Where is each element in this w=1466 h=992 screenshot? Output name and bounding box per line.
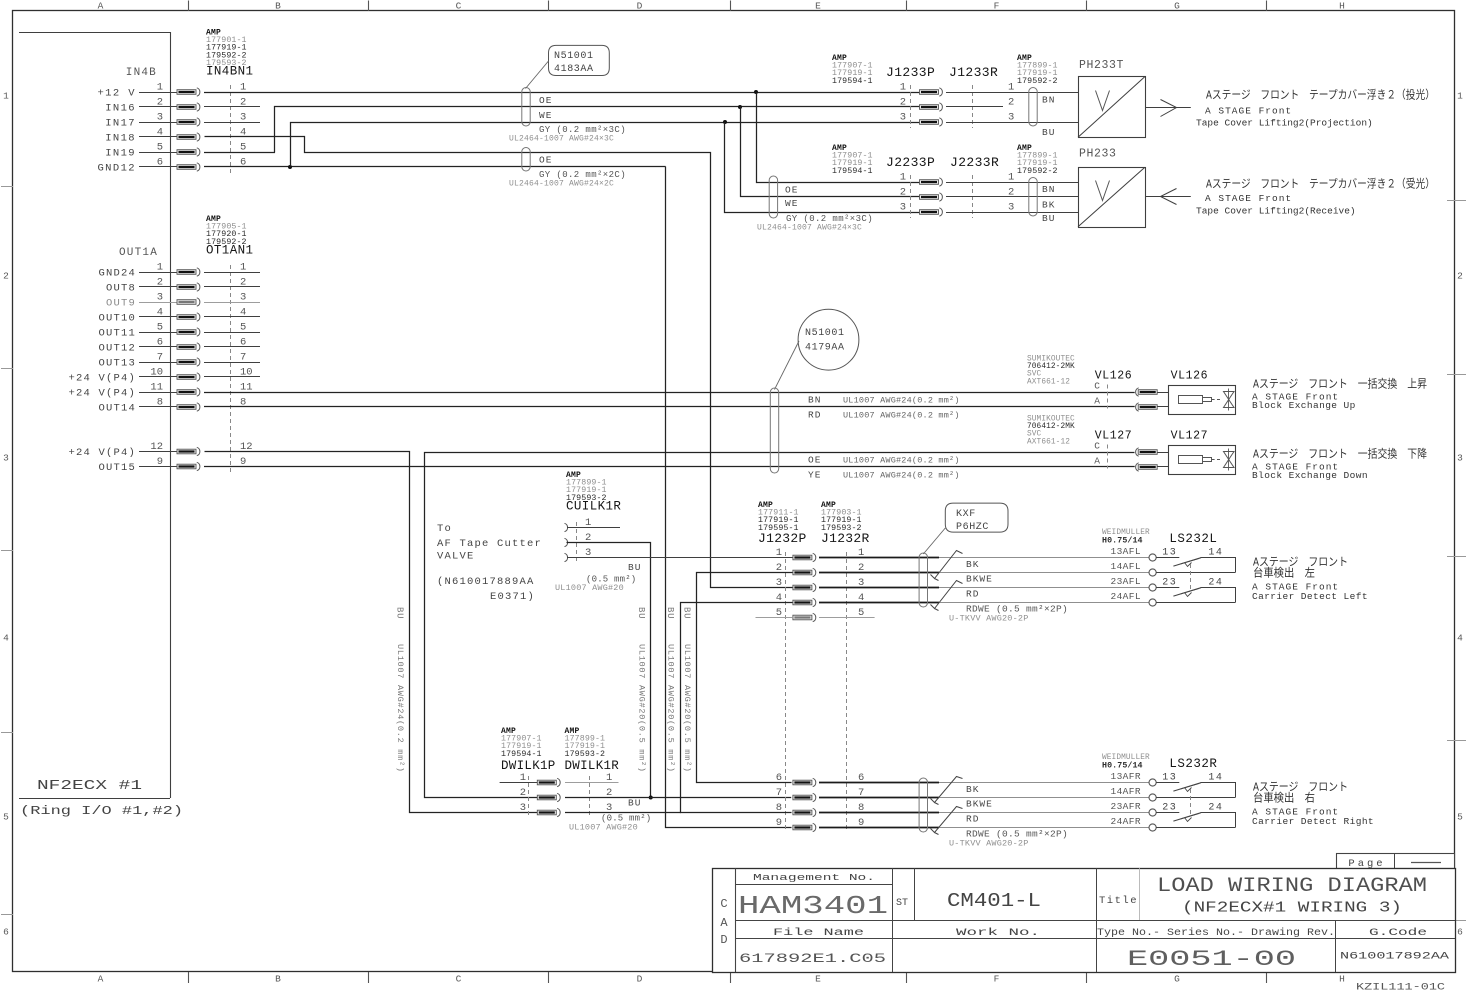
svg-text:N610017892AA: N610017892AA <box>1340 951 1450 963</box>
wire GND12 routed to row3 <box>204 166 666 168</box>
svg-text:LS232L: LS232L <box>1169 532 1217 546</box>
svg-text:6: 6 <box>3 927 9 938</box>
svg-text:台車検出 左: 台車検出 左 <box>1253 566 1315 581</box>
svg-text:4: 4 <box>157 307 163 319</box>
svg-text:B: B <box>275 1 281 12</box>
node J at 740,107 <box>738 105 742 109</box>
svg-text:1: 1 <box>1008 172 1014 184</box>
svg-text:3: 3 <box>157 112 163 124</box>
svg-text:5: 5 <box>240 322 246 334</box>
svg-text:9: 9 <box>776 817 782 829</box>
svg-text:J1232P: J1232P <box>758 531 807 546</box>
svg-text:YE: YE <box>808 470 821 481</box>
svg-text:OUT12: OUT12 <box>98 343 136 355</box>
svg-text:UL1007 AWG#20(0.5 mm²): UL1007 AWG#20(0.5 mm²) <box>636 644 646 773</box>
svg-text:IN4B: IN4B <box>126 67 157 79</box>
svg-text:13AFL: 13AFL <box>1110 546 1141 557</box>
svg-text:+12 V: +12 V <box>97 88 136 100</box>
svg-text:J1233R: J1233R <box>949 65 998 80</box>
svg-text:IN19: IN19 <box>105 148 136 160</box>
svg-text:6: 6 <box>157 337 163 349</box>
svg-text:H0.75/14: H0.75/14 <box>1102 761 1143 771</box>
svg-text:3: 3 <box>3 453 9 464</box>
svg-text:3: 3 <box>1008 112 1014 124</box>
svg-text:UL2464-1007 AWG#24×3C: UL2464-1007 AWG#24×3C <box>757 224 862 233</box>
svg-text:23AFL: 23AFL <box>1110 576 1141 587</box>
cable marker J1233 <box>1029 88 1037 126</box>
J1232P pin5 stubs <box>756 617 793 619</box>
svg-text:(Ring I/O #1,#2): (Ring I/O #1,#2) <box>20 804 183 818</box>
svg-text:+24 V(P4): +24 V(P4) <box>68 373 136 385</box>
svg-text:GY (0.2 mm²×3C): GY (0.2 mm²×3C) <box>539 125 626 135</box>
svg-text:4: 4 <box>157 127 163 139</box>
svg-text:U-TKVV AWG20-2P: U-TKVV AWG20-2P <box>949 839 1029 849</box>
arrow receive <box>1146 196 1191 198</box>
svg-text:Aステージ フロント テープカバー浮き２（受光）: Aステージ フロント テープカバー浮き２（受光） <box>1206 177 1435 192</box>
svg-text:23: 23 <box>1162 577 1177 588</box>
svg-text:OUT1A: OUT1A <box>119 247 158 259</box>
cable marker GY 3C (J2233) <box>769 176 777 218</box>
svg-text:3: 3 <box>1457 453 1463 464</box>
wire OUT15 to VL127 A <box>204 466 1135 468</box>
svg-text:OE: OE <box>808 455 821 466</box>
svg-text:2: 2 <box>900 187 906 199</box>
svg-text:OT1AN1: OT1AN1 <box>206 243 253 257</box>
svg-text:RD: RD <box>966 814 979 825</box>
svg-text:7: 7 <box>776 787 782 799</box>
svg-text:D: D <box>720 933 727 947</box>
svg-text:G: G <box>1174 974 1180 985</box>
node J at 725,122 <box>723 120 727 124</box>
svg-text:2: 2 <box>900 97 906 109</box>
svg-text:A: A <box>720 916 728 930</box>
svg-text:H: H <box>1339 974 1345 985</box>
leader <box>923 528 945 554</box>
svg-text:BN: BN <box>808 395 821 406</box>
svg-text:VL127: VL127 <box>1095 430 1133 443</box>
node BU at 650.7,797.5 <box>649 796 653 800</box>
CUILK pin1 stub <box>567 527 620 529</box>
svg-text:24: 24 <box>1208 802 1223 813</box>
svg-text:File Name: File Name <box>773 927 864 939</box>
svg-text:AXT661-12: AXT661-12 <box>1027 438 1070 446</box>
svg-text:BU: BU <box>394 607 404 619</box>
svg-text:3: 3 <box>520 802 526 814</box>
leader <box>775 341 800 390</box>
svg-text:J2233P: J2233P <box>886 155 935 170</box>
svg-text:PH233: PH233 <box>1079 148 1117 161</box>
svg-text:OUT10: OUT10 <box>98 313 136 325</box>
svg-text:UL1007 AWG#24(0.2 mm²): UL1007 AWG#24(0.2 mm²) <box>843 456 960 466</box>
svg-text:OE: OE <box>539 155 552 166</box>
svg-text:D: D <box>637 1 643 12</box>
svg-text:4183AA: 4183AA <box>554 64 594 75</box>
svg-text:E: E <box>815 1 821 12</box>
DWILK pin3 to junction 681 <box>565 812 681 814</box>
svg-text:WE: WE <box>785 198 798 209</box>
svg-text:(N610017889AA: (N610017889AA <box>437 576 535 588</box>
svg-text:617892E1.C05: 617892E1.C05 <box>739 951 886 966</box>
svg-text:10: 10 <box>150 367 163 379</box>
svg-text:23AFR: 23AFR <box>1110 801 1141 812</box>
svg-text:Aステージ フロント 一括交換 下降: Aステージ フロント 一括交換 下降 <box>1253 447 1427 462</box>
svg-text:13: 13 <box>1162 772 1177 783</box>
wire +24V pin12 to DWILK1P pin3 <box>205 452 538 813</box>
svg-text:5: 5 <box>240 142 246 154</box>
svg-text:BU: BU <box>636 607 646 619</box>
svg-text:2: 2 <box>157 97 163 109</box>
svg-text:179594-1: 179594-1 <box>832 77 873 86</box>
svg-text:A STAGE Front: A STAGE Front <box>1205 106 1292 117</box>
J1233R pin1 wire to PH233T <box>946 92 1078 94</box>
svg-text:WE: WE <box>539 110 552 121</box>
svg-text:3: 3 <box>240 292 246 304</box>
svg-text:11: 11 <box>150 382 163 394</box>
svg-text:OE: OE <box>785 185 798 196</box>
svg-text:OE: OE <box>539 95 552 106</box>
svg-text:GND12: GND12 <box>97 163 136 175</box>
svg-text:3: 3 <box>900 112 906 124</box>
svg-text:24AFL: 24AFL <box>1110 591 1141 602</box>
svg-text:B: B <box>275 974 281 985</box>
svg-text:BU: BU <box>682 607 692 619</box>
svg-text:Aステージ フロント テープカバー浮き２（投光）: Aステージ フロント テープカバー浮き２（投光） <box>1206 88 1435 103</box>
cable marker VL <box>770 388 778 473</box>
svg-text:A STAGE Front: A STAGE Front <box>1205 193 1292 204</box>
svg-text:To: To <box>437 523 452 535</box>
svg-text:AF Tape Cutter: AF Tape Cutter <box>437 538 542 550</box>
wire IN16 stub <box>204 106 260 108</box>
svg-text:1: 1 <box>900 82 906 94</box>
svg-text:BKWE: BKWE <box>966 799 993 810</box>
svg-text:IN16: IN16 <box>105 103 136 115</box>
wire IN18 routed down <box>205 137 793 588</box>
svg-text:DWILK1R: DWILK1R <box>565 759 620 773</box>
balloon KXF P6HZC <box>945 503 1008 532</box>
svg-text:GY (0.2 mm²×2C): GY (0.2 mm²×2C) <box>539 170 626 180</box>
svg-text:179594-1: 179594-1 <box>832 167 873 176</box>
svg-text:4: 4 <box>3 633 9 644</box>
svg-text:4: 4 <box>1457 633 1463 644</box>
svg-text:24: 24 <box>1208 577 1223 588</box>
svg-text:2: 2 <box>157 277 163 289</box>
svg-text:N51001: N51001 <box>554 51 594 62</box>
svg-text:14: 14 <box>1208 547 1223 558</box>
svg-text:UL1007 AWG#20: UL1007 AWG#20 <box>569 823 638 833</box>
svg-text:3: 3 <box>776 577 782 589</box>
svg-text:1: 1 <box>1008 82 1014 94</box>
CUILK pin3 wire to J1232P pin1 <box>567 557 793 559</box>
svg-text:CM401-L: CM401-L <box>947 890 1041 912</box>
balloon N51001 4179AA <box>798 309 859 370</box>
svg-text:23: 23 <box>1162 802 1177 813</box>
node at 290,167 <box>288 165 292 169</box>
svg-text:C: C <box>1094 441 1100 452</box>
svg-text:6: 6 <box>157 157 163 169</box>
svg-text:IN4BN1: IN4BN1 <box>206 65 253 79</box>
svg-text:179592-2: 179592-2 <box>1017 167 1058 176</box>
title block <box>1337 854 1455 869</box>
svg-text:2: 2 <box>1008 97 1014 109</box>
svg-text:+24 V(P4): +24 V(P4) <box>68 388 136 400</box>
svg-text:14AFL: 14AFL <box>1110 561 1141 572</box>
J1233R pin3 wire <box>946 122 1078 124</box>
svg-text:NF2ECX #1: NF2ECX #1 <box>37 778 142 794</box>
svg-text:BK: BK <box>966 559 979 570</box>
svg-text:F: F <box>994 1 1000 12</box>
svg-text:J1233P: J1233P <box>886 65 935 80</box>
wire IN17 stub <box>204 122 260 124</box>
svg-text:Work No.: Work No. <box>956 927 1040 939</box>
svg-text:UL2464-1007 AWG#24×2C: UL2464-1007 AWG#24×2C <box>509 180 614 189</box>
svg-text:Title: Title <box>1099 895 1138 907</box>
arrow projection <box>1146 107 1191 109</box>
svg-text:1: 1 <box>157 82 163 94</box>
svg-text:1: 1 <box>3 91 9 102</box>
svg-text:BK: BK <box>966 784 979 795</box>
wire OUT14 to VL126 A <box>204 406 1135 408</box>
svg-text:DWILK1P: DWILK1P <box>501 759 556 773</box>
wire +24V pin11 to VL126 C <box>204 392 1135 394</box>
svg-text:VL127: VL127 <box>1171 430 1209 443</box>
svg-text:2: 2 <box>1457 271 1463 282</box>
svg-text:BU: BU <box>1042 213 1055 224</box>
svg-text:P6HZC: P6HZC <box>956 522 989 533</box>
svg-text:6: 6 <box>1457 927 1463 938</box>
cable marker GY 3C <box>522 87 530 126</box>
cable marker J2233 <box>1029 178 1037 216</box>
svg-text:C: C <box>720 897 727 911</box>
J1233R pin2 stub <box>946 106 1003 108</box>
J1232P pin4-pin8 tie <box>681 603 793 813</box>
twisted pair symbols bottom <box>931 777 963 803</box>
svg-text:179594-1: 179594-1 <box>501 750 542 759</box>
svg-text:LOAD WIRING DIAGRAM: LOAD WIRING DIAGRAM <box>1157 875 1427 898</box>
svg-text:3: 3 <box>1008 202 1014 214</box>
svg-text:14: 14 <box>1208 772 1223 783</box>
svg-text:CUILK1R: CUILK1R <box>566 499 621 513</box>
svg-text:GND24: GND24 <box>98 268 136 280</box>
J1232P pin2-pin6 tie <box>697 573 793 783</box>
wire IN19 routed to row2 <box>204 152 275 154</box>
wire feeds J2233P pin3 <box>725 123 920 213</box>
svg-text:UL1007 AWG#24(0.2 mm²): UL1007 AWG#24(0.2 mm²) <box>843 471 960 481</box>
svg-text:9: 9 <box>157 456 163 468</box>
svg-text:(NF2ECX#1 WIRING 3): (NF2ECX#1 WIRING 3) <box>1182 900 1402 917</box>
J2233R wires to PH233 <box>946 182 1078 184</box>
svg-text:A: A <box>98 1 104 12</box>
svg-text:UL2464-1007 AWG#24×3C: UL2464-1007 AWG#24×3C <box>509 135 614 144</box>
svg-text:Tape Cover Lifting2(Projection: Tape Cover Lifting2(Projection) <box>1196 118 1373 129</box>
svg-text:OUT11: OUT11 <box>98 328 136 340</box>
mech link dashed <box>1190 789 1192 817</box>
svg-text:BU: BU <box>1042 127 1055 138</box>
svg-text:E0051-00: E0051-00 <box>1127 947 1296 972</box>
svg-text:13: 13 <box>1162 547 1177 558</box>
svg-text:Aステージ フロント 一括交換 上昇: Aステージ フロント 一括交換 上昇 <box>1253 377 1427 392</box>
twisted pair symbols top <box>931 551 963 579</box>
node J at 756,92 <box>754 90 758 94</box>
svg-text:1: 1 <box>240 82 246 94</box>
svg-text:BU: BU <box>628 562 641 573</box>
svg-text:1: 1 <box>240 262 246 274</box>
svg-text:7: 7 <box>157 352 163 364</box>
svg-text:UL1007 AWG#24(0.2 mm²): UL1007 AWG#24(0.2 mm²) <box>843 411 960 421</box>
svg-text:C: C <box>456 974 462 985</box>
svg-text:11: 11 <box>240 382 253 394</box>
svg-text:A: A <box>1094 456 1100 467</box>
svg-text:BK: BK <box>1042 200 1055 211</box>
svg-text:RD: RD <box>808 410 821 421</box>
svg-text:1: 1 <box>1457 91 1463 102</box>
balloon N51001 4183AA <box>549 45 610 75</box>
wire feeds J2233P pin1 <box>757 93 920 183</box>
svg-text:13AFR: 13AFR <box>1110 771 1141 782</box>
svg-text:Tape Cover Lifting2(Receive): Tape Cover Lifting2(Receive) <box>1196 206 1356 217</box>
svg-text:A: A <box>98 974 104 985</box>
svg-text:UL1007 AWG#24(0.2 mm²): UL1007 AWG#24(0.2 mm²) <box>395 644 405 773</box>
svg-text:J1232R: J1232R <box>821 531 870 546</box>
svg-text:4179AA: 4179AA <box>805 343 845 354</box>
svg-text:Management No.: Management No. <box>753 872 875 883</box>
svg-text:A: A <box>1094 396 1100 407</box>
svg-text:5: 5 <box>3 812 9 823</box>
svg-text:3: 3 <box>240 112 246 124</box>
svg-text:OUT15: OUT15 <box>98 462 136 474</box>
cable marker GY 2C <box>522 147 530 171</box>
DWILK pin1 stubs <box>500 782 538 784</box>
svg-text:Block Exchange Up: Block Exchange Up <box>1252 400 1356 411</box>
svg-text:VL126: VL126 <box>1095 370 1133 383</box>
svg-text:+24 V(P4): +24 V(P4) <box>68 447 136 459</box>
wire +12V row <box>204 92 920 94</box>
svg-text:24AFR: 24AFR <box>1110 816 1141 827</box>
svg-text:2: 2 <box>3 271 9 282</box>
svg-text:RD: RD <box>966 589 979 600</box>
svg-text:OUT13: OUT13 <box>98 358 136 370</box>
svg-text:5: 5 <box>157 322 163 334</box>
svg-text:PH233T: PH233T <box>1079 59 1124 72</box>
svg-text:1: 1 <box>776 547 782 559</box>
svg-text:BN: BN <box>1042 184 1055 195</box>
svg-text:KXF: KXF <box>956 509 976 520</box>
svg-text:2: 2 <box>520 787 526 799</box>
svg-text:OUT9: OUT9 <box>106 298 136 310</box>
svg-text:5: 5 <box>157 142 163 154</box>
svg-text:14AFR: 14AFR <box>1110 786 1141 797</box>
wire GND12 down to J1232P pin9 <box>666 167 792 828</box>
svg-text:179592-2: 179592-2 <box>1017 77 1058 86</box>
CUILK pin2 wire to BU net <box>567 543 651 798</box>
svg-text:C: C <box>1094 381 1100 392</box>
svg-text:3: 3 <box>157 292 163 304</box>
svg-text:UL1007 AWG#20(0.5 mm²): UL1007 AWG#20(0.5 mm²) <box>682 644 692 773</box>
cable marker J1232 top <box>919 553 927 607</box>
svg-text:LS232R: LS232R <box>1169 757 1217 771</box>
svg-text:G: G <box>1174 1 1180 12</box>
svg-text:UL1007 AWG#20: UL1007 AWG#20 <box>555 583 624 593</box>
svg-text:AXT661-12: AXT661-12 <box>1027 378 1070 386</box>
svg-text:BU: BU <box>628 798 641 809</box>
svg-text:OUT8: OUT8 <box>106 283 136 295</box>
svg-text:F: F <box>994 974 1000 985</box>
svg-text:Type No.- Series No.- Drawing: Type No.- Series No.- Drawing Rev. <box>1097 927 1335 939</box>
svg-text:E0371): E0371) <box>490 591 535 603</box>
svg-text:12: 12 <box>150 441 163 453</box>
svg-text:Block Exchange Down: Block Exchange Down <box>1252 470 1368 481</box>
cable marker J1232 bottom <box>919 778 927 832</box>
svg-text:IN17: IN17 <box>105 118 136 130</box>
svg-text:8: 8 <box>157 397 163 409</box>
wire BU to VL127 C and DWILK pin2 <box>425 453 1135 798</box>
svg-text:179593-2: 179593-2 <box>565 750 606 759</box>
svg-text:N51001: N51001 <box>805 328 845 339</box>
svg-text:BU: BU <box>665 607 675 619</box>
svg-text:1: 1 <box>157 262 163 274</box>
DWILK pin2 to J1232P pin7 <box>565 797 791 799</box>
svg-text:H: H <box>1339 1 1345 12</box>
svg-text:ST: ST <box>896 898 908 909</box>
NF2ECX #1 unit box <box>19 32 170 34</box>
svg-text:G.Code: G.Code <box>1369 927 1427 939</box>
svg-text:VALVE: VALVE <box>437 551 475 563</box>
svg-text:IN18: IN18 <box>105 133 136 145</box>
svg-text:台車検出 右: 台車検出 右 <box>1253 791 1315 806</box>
svg-text:BKWE: BKWE <box>966 574 993 585</box>
svg-text:J2233R: J2233R <box>950 155 999 170</box>
svg-text:OUT14: OUT14 <box>98 403 136 415</box>
svg-text:GY (0.2 mm²×3C): GY (0.2 mm²×3C) <box>786 214 873 224</box>
wire feeds J2233P pin2 <box>741 107 920 197</box>
svg-text:BN: BN <box>1042 95 1055 106</box>
svg-text:Carrier Detect Right: Carrier Detect Right <box>1252 816 1374 827</box>
svg-text:H0.75/14: H0.75/14 <box>1102 536 1143 546</box>
svg-text:KZIL111-01C: KZIL111-01C <box>1356 983 1445 992</box>
svg-text:VL126: VL126 <box>1171 370 1209 383</box>
svg-text:HAM3401: HAM3401 <box>738 891 888 921</box>
mech link dashed <box>1190 564 1192 592</box>
svg-text:Carrier Detect Left: Carrier Detect Left <box>1252 591 1368 602</box>
leader <box>526 61 549 89</box>
svg-text:E: E <box>815 974 821 985</box>
svg-text:UL1007 AWG#20(0.5 mm²): UL1007 AWG#20(0.5 mm²) <box>665 644 675 773</box>
svg-text:UL1007 AWG#24(0.2 mm²): UL1007 AWG#24(0.2 mm²) <box>843 396 960 406</box>
svg-text:5: 5 <box>1457 812 1463 823</box>
svg-text:C: C <box>456 1 462 12</box>
svg-text:3: 3 <box>900 202 906 214</box>
svg-text:1: 1 <box>900 172 906 184</box>
svg-text:D: D <box>637 974 643 985</box>
svg-text:U-TKVV AWG20-2P: U-TKVV AWG20-2P <box>949 614 1029 624</box>
svg-text:7: 7 <box>240 352 246 364</box>
